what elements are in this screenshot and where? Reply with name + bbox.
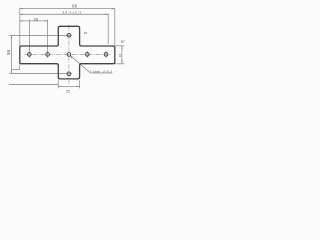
svg-text:38: 38 (6, 50, 11, 56)
svg-text:22: 22 (66, 90, 70, 94)
svg-text:28: 28 (34, 17, 39, 22)
svg-text:R7: R7 (121, 40, 125, 44)
svg-text:88,4±0,5: 88,4±0,5 (63, 11, 83, 15)
svg-text:7 отв. ∅ 6,2: 7 отв. ∅ 6,2 (89, 70, 112, 74)
svg-text:18: 18 (118, 54, 122, 58)
svg-text:96: 96 (72, 4, 78, 9)
